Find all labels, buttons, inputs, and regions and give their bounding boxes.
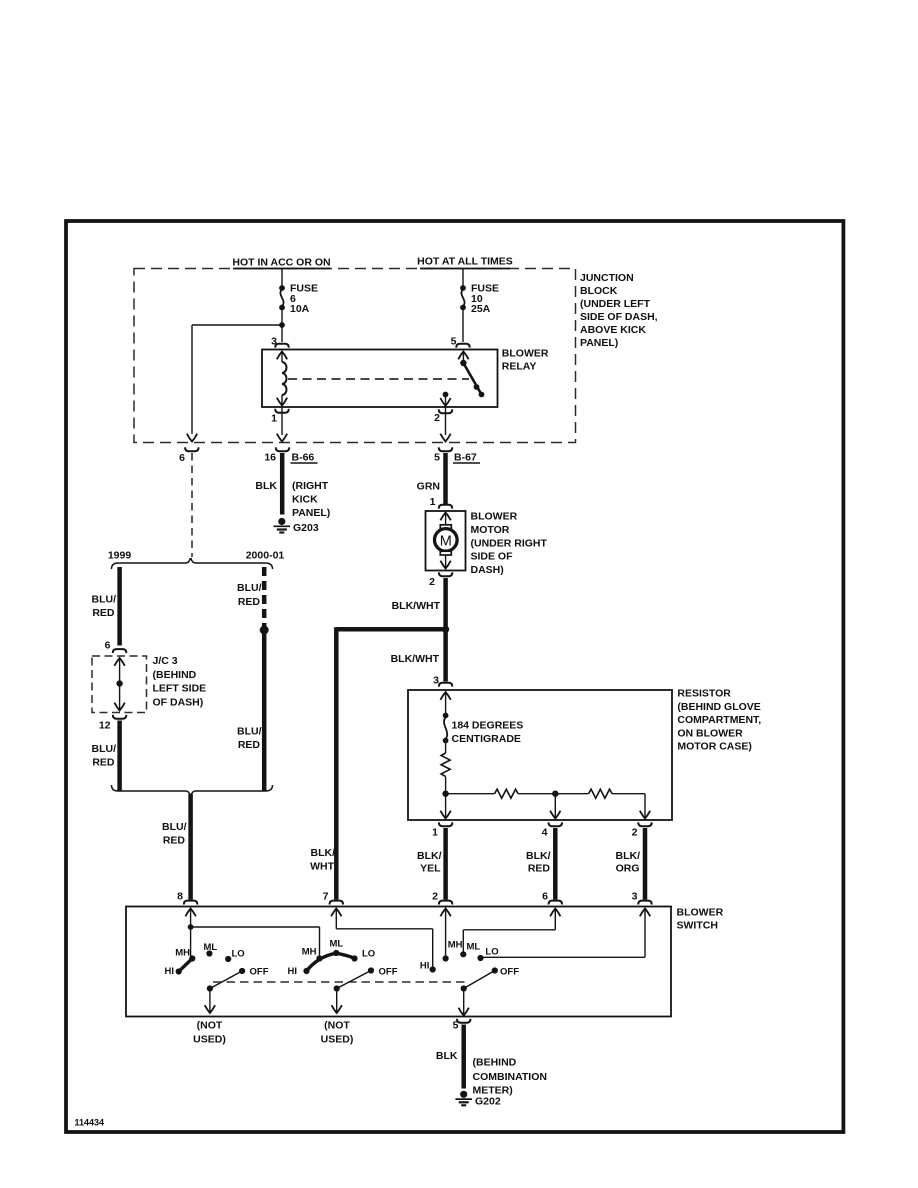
- wire BLK/YEL: [443, 828, 448, 900]
- fuse 10 value label: [471, 283, 499, 316]
- arrow switch pin 2 inside: [445, 909, 447, 959]
- svg-text:5: 5: [434, 452, 440, 464]
- connector motor pin 1: [439, 505, 452, 509]
- wire BLK/RED: [553, 828, 558, 900]
- svg-text:MH: MH: [175, 948, 190, 959]
- svg-text:6: 6: [179, 452, 185, 464]
- svg-text:ML: ML: [204, 942, 218, 953]
- net B-67 label: [453, 452, 480, 464]
- svg-text:12: 12: [99, 720, 111, 732]
- arrow switch pin 3 inside: [644, 909, 646, 958]
- svg-text:(RIGHT: (RIGHT: [292, 480, 329, 492]
- svg-text:(UNDER RIGHT: (UNDER RIGHT: [471, 537, 548, 549]
- svg-text:BLK/WHT: BLK/WHT: [391, 653, 440, 665]
- connector switch pin 7: [330, 901, 343, 905]
- wire thermal fuse to resistor R1: [445, 741, 447, 754]
- relay pin 1 lead: [281, 407, 283, 435]
- wire BLU/RED 2000-01 solid: [262, 630, 267, 791]
- svg-text:BLU/: BLU/: [92, 743, 117, 755]
- svg-text:YEL: YEL: [420, 863, 441, 875]
- svg-text:3: 3: [632, 891, 638, 903]
- junction block dashed outline: [134, 269, 576, 443]
- wire pin8 bus: [191, 926, 320, 928]
- switch bank 1 contacts: [176, 950, 246, 974]
- wire BLK to G202: [461, 1025, 466, 1089]
- wire GRN motor pin1: [443, 453, 448, 504]
- svg-text:LEFT SIDE: LEFT SIDE: [153, 683, 207, 695]
- svg-text:BLU/: BLU/: [162, 821, 187, 833]
- svg-text:BLK/: BLK/: [417, 850, 442, 862]
- junction connector J/C 3 dashed box: [92, 656, 147, 713]
- blower motor label: [471, 511, 548, 577]
- connector B-66: [276, 447, 289, 451]
- ground G202: [455, 1091, 472, 1106]
- node HOT IN ACC OR ON header: [233, 268, 330, 270]
- wire branch to junction pin 6: [192, 324, 282, 326]
- svg-text:16: 16: [264, 452, 276, 464]
- svg-text:KICK: KICK: [292, 494, 318, 506]
- connector motor pin 2: [439, 572, 452, 576]
- svg-text:RED: RED: [92, 607, 115, 619]
- connector J/C pin 6: [113, 649, 126, 653]
- connector switch pin 3: [638, 901, 651, 905]
- svg-text:MH: MH: [302, 947, 317, 958]
- arrow relay pin 1: [277, 434, 287, 442]
- svg-text:RED: RED: [238, 596, 261, 608]
- svg-text:7: 7: [323, 891, 329, 903]
- connector switch pin 8: [184, 901, 197, 905]
- svg-text:RED: RED: [528, 863, 551, 875]
- blower switch label: [677, 907, 724, 932]
- svg-text:10A: 10A: [290, 303, 310, 315]
- svg-text:MOTOR: MOTOR: [471, 524, 510, 536]
- connector relay pin 1: [275, 409, 288, 413]
- svg-text:(UNDER LEFT: (UNDER LEFT: [580, 298, 651, 310]
- svg-text:6: 6: [542, 891, 548, 903]
- switch bank 2 off wiper: [337, 971, 371, 989]
- svg-text:ML: ML: [330, 939, 344, 950]
- wire BLU/RED 1999 label: [92, 594, 117, 620]
- svg-text:HI: HI: [165, 966, 175, 977]
- resistor label: [677, 688, 761, 753]
- svg-text:ML: ML: [467, 942, 481, 953]
- svg-text:2: 2: [632, 827, 638, 839]
- switch bank 3 labels: [420, 940, 519, 978]
- switch bank 2 arm arrow: [336, 989, 338, 1014]
- wire pin6 to ML3: [464, 929, 556, 931]
- svg-text:ORG: ORG: [616, 863, 640, 875]
- svg-text:MH: MH: [448, 940, 463, 951]
- svg-text:1: 1: [271, 413, 277, 425]
- svg-text:BLK/WHT: BLK/WHT: [392, 600, 441, 612]
- ground G202 location label: [473, 1057, 547, 1097]
- splice node 2000-01: [260, 626, 269, 635]
- svg-text:BLK: BLK: [436, 1050, 458, 1062]
- wire BLU/RED 2000-01 dashed: [262, 567, 267, 628]
- junction node below fuse 6: [279, 322, 285, 328]
- svg-text:ON BLOWER: ON BLOWER: [677, 727, 743, 739]
- svg-text:BLU/: BLU/: [92, 594, 117, 606]
- svg-text:ABOVE KICK: ABOVE KICK: [580, 324, 646, 336]
- svg-text:4: 4: [542, 827, 548, 839]
- svg-text:BLK: BLK: [255, 480, 277, 492]
- svg-text:PANEL): PANEL): [580, 337, 618, 349]
- resistor pack box: [408, 690, 672, 820]
- svg-text:SWITCH: SWITCH: [677, 920, 718, 932]
- svg-text:RELAY: RELAY: [502, 360, 537, 372]
- svg-text:RED: RED: [92, 757, 115, 769]
- arrow into junction pin 6: [187, 434, 197, 442]
- svg-text:WHT: WHT: [310, 861, 334, 873]
- relay coil: [277, 352, 287, 406]
- connector J/C pin 12: [113, 715, 126, 719]
- connector junction pin 6: [185, 447, 198, 451]
- svg-text:COMPARTMENT,: COMPARTMENT,: [677, 714, 761, 726]
- wire BLU/RED 2000-01 label lower: [237, 726, 262, 752]
- J/C 3 label: [153, 655, 207, 708]
- svg-text:8: 8: [177, 891, 183, 903]
- switch bank 3 arm arrow: [463, 989, 465, 1016]
- svg-text:BLK/: BLK/: [311, 847, 336, 859]
- diagram border frame: [66, 221, 843, 1132]
- svg-text:2: 2: [429, 576, 435, 588]
- svg-text:PANEL): PANEL): [292, 507, 330, 519]
- relay pin 2 lead: [445, 407, 447, 435]
- svg-text:BLOWER: BLOWER: [502, 348, 549, 360]
- wire BLU/RED lower-left label: [92, 743, 117, 769]
- svg-text:BLU/: BLU/: [237, 726, 262, 738]
- wire pin3 to LO3: [481, 956, 646, 958]
- resistor element R2 horizontal: [495, 789, 519, 798]
- dashed wire junction pin6 to year split: [191, 453, 193, 557]
- svg-text:(NOT: (NOT: [324, 1020, 350, 1032]
- wire BLU/RED from J/C 12: [117, 721, 122, 792]
- svg-text:(NOT: (NOT: [197, 1020, 223, 1032]
- svg-text:M: M: [440, 533, 452, 549]
- switch bank 1 off wiper: [210, 971, 242, 989]
- svg-text:OFF: OFF: [250, 967, 269, 978]
- svg-text:SIDE OF: SIDE OF: [471, 551, 514, 563]
- connector B-67: [439, 447, 452, 451]
- wire BLU/RED to switch pin 8: [188, 794, 193, 900]
- wire pin8 to MH1: [190, 927, 192, 959]
- svg-text:1999: 1999: [108, 550, 132, 562]
- arrow switch pin 6 inside: [554, 909, 556, 930]
- svg-text:1: 1: [430, 496, 436, 508]
- svg-text:USED): USED): [321, 1034, 354, 1046]
- junction node BLK/WHT: [442, 626, 449, 633]
- svg-text:RESISTOR: RESISTOR: [677, 688, 731, 700]
- relay switch contact pin5: [462, 352, 464, 364]
- svg-text:(BEHIND: (BEHIND: [153, 669, 197, 681]
- blower relay label: [502, 348, 549, 373]
- switch bank 2 wiper arc HI-LO: [307, 953, 355, 971]
- relay internal dashed link: [288, 378, 469, 380]
- fuse 10 25A wire stub: [462, 269, 464, 288]
- fuse 6 10A: [279, 285, 285, 310]
- svg-text:2000-01: 2000-01: [246, 550, 285, 562]
- switch mechanical dashed link: [213, 981, 466, 983]
- svg-text:J/C 3: J/C 3: [153, 655, 178, 667]
- svg-text:6: 6: [105, 640, 111, 652]
- svg-text:OF DASH): OF DASH): [153, 696, 204, 708]
- connector resistor pin 2: [638, 822, 651, 826]
- svg-text:G202: G202: [475, 1096, 501, 1108]
- connector resistor pin 3: [439, 683, 452, 687]
- switch bank 1 wiper HI-MH: [179, 959, 193, 972]
- junction block label: [580, 272, 658, 349]
- year split brace: [112, 558, 273, 569]
- svg-text:25A: 25A: [471, 303, 491, 315]
- svg-text:(BEHIND GLOVE: (BEHIND GLOVE: [677, 701, 760, 713]
- arrow switch pin 7 inside: [335, 909, 337, 929]
- svg-text:BLU/: BLU/: [237, 582, 262, 594]
- svg-text:BLK/: BLK/: [616, 850, 641, 862]
- ground G203: [274, 518, 291, 533]
- net B-66 label: [291, 452, 318, 464]
- svg-text:OFF: OFF: [500, 967, 519, 978]
- svg-text:BLOWER: BLOWER: [471, 511, 518, 523]
- svg-text:HI: HI: [420, 961, 430, 972]
- svg-text:2: 2: [434, 412, 440, 424]
- ground G203 label: [292, 480, 330, 519]
- wire BLU/RED 1999: [117, 567, 122, 646]
- wire BLK/WHT horizontal to switch branch: [336, 627, 445, 632]
- svg-text:B-66: B-66: [292, 452, 315, 464]
- svg-text:G203: G203: [293, 522, 319, 534]
- J/C 3 internal wire: [114, 658, 124, 711]
- svg-text:OFF: OFF: [379, 967, 398, 978]
- svg-text:GRN: GRN: [417, 481, 440, 493]
- svg-text:184 DEGREES: 184 DEGREES: [452, 720, 524, 732]
- connector resistor pin 1: [439, 822, 452, 826]
- blower switch box: [126, 907, 671, 1017]
- connector switch pin 2: [439, 901, 452, 905]
- svg-text:(BEHIND: (BEHIND: [473, 1057, 517, 1069]
- junction node resistor out1: [442, 791, 448, 797]
- arrow relay pin 2: [440, 434, 450, 442]
- wire BLK/YEL label: [417, 850, 442, 875]
- fuse 6 10A wire stub: [281, 269, 283, 288]
- year merge brace: [112, 785, 273, 796]
- arrow resistor pin 4 inside: [554, 794, 556, 819]
- wire BLK/RED label: [526, 850, 551, 875]
- wire BLK to G203: [280, 453, 285, 515]
- wire BLK/WHT to resistor pin 3: [443, 629, 448, 681]
- svg-text:SIDE OF DASH,: SIDE OF DASH,: [580, 311, 658, 323]
- node HOT AT ALL TIMES header: [420, 268, 510, 270]
- wire BLK/WHT pin7 label: [310, 847, 335, 873]
- fuse 6 value label: [290, 283, 318, 316]
- connector switch pin 6: [549, 901, 562, 905]
- junction node resistor out2: [552, 791, 558, 797]
- wire node2 to R3: [555, 793, 588, 795]
- wire BLK/ORG: [643, 828, 648, 900]
- wire pin7 to HI3: [336, 928, 432, 930]
- arrow resistor pin 2 inside: [644, 810, 646, 819]
- wire fuse6 to pin3: [281, 308, 283, 343]
- relay switch blade: [463, 363, 481, 395]
- junction node pin 8: [188, 924, 194, 930]
- svg-text:BLK/: BLK/: [526, 850, 551, 862]
- label not used 1: [193, 1020, 226, 1046]
- wire R3 to pin2 drop: [612, 793, 645, 795]
- svg-text:2: 2: [432, 891, 438, 903]
- wire R2 to node2: [518, 793, 555, 795]
- switch bank 1 arm arrow: [209, 989, 211, 1014]
- wire BLK/WHT motor to node: [443, 578, 448, 629]
- wire BLU/RED 2000-01 label upper: [237, 582, 262, 608]
- svg-text:BLOWER: BLOWER: [677, 907, 724, 919]
- relay switch contact pin2: [443, 392, 449, 398]
- switch bank 2 labels: [288, 939, 398, 978]
- svg-text:B-67: B-67: [454, 452, 477, 464]
- wire BLK/WHT vertical to switch pin 7: [334, 627, 339, 899]
- wire BLU/RED switch label: [162, 821, 187, 847]
- switch bank 2 contacts: [303, 950, 374, 974]
- svg-text:MOTOR CASE): MOTOR CASE): [677, 741, 751, 753]
- svg-text:HOT AT ALL TIMES: HOT AT ALL TIMES: [417, 255, 513, 267]
- arrow switch pin 8 inside: [190, 909, 192, 928]
- svg-text:114434: 114434: [75, 1118, 105, 1128]
- svg-text:CENTIGRADE: CENTIGRADE: [452, 733, 521, 745]
- wire BLK/ORG label: [616, 850, 641, 875]
- connector resistor pin 4: [549, 822, 562, 826]
- svg-text:DASH): DASH): [471, 564, 504, 576]
- wire R1 to node: [445, 777, 447, 794]
- blower motor box: [426, 511, 466, 571]
- label not used 2: [321, 1020, 354, 1046]
- svg-text:BLOCK: BLOCK: [580, 285, 618, 297]
- connector pin 5: [456, 344, 469, 348]
- resistor element R1 vertical: [441, 753, 450, 776]
- fuse 10 25A: [460, 285, 466, 310]
- thermal fuse value label: [452, 720, 524, 746]
- motor M1 symbol: [435, 513, 458, 569]
- svg-text:HI: HI: [288, 966, 298, 977]
- connector switch pin 5: [457, 1019, 470, 1023]
- svg-text:JUNCTION: JUNCTION: [580, 272, 634, 284]
- thermal fuse 184C: [443, 713, 449, 744]
- wire node to R2: [446, 793, 495, 795]
- svg-text:LO: LO: [362, 949, 375, 960]
- svg-text:COMBINATION: COMBINATION: [473, 1071, 547, 1083]
- svg-text:1: 1: [432, 827, 438, 839]
- wire fuse10 to pin5: [462, 308, 464, 343]
- resistor element R3 horizontal: [589, 789, 613, 798]
- svg-text:LO: LO: [485, 947, 498, 958]
- arrow resistor pin 1 inside: [445, 794, 447, 819]
- svg-text:HOT IN ACC OR ON: HOT IN ACC OR ON: [232, 256, 330, 268]
- connector relay pin 2: [439, 409, 452, 413]
- arrow resistor pin 3 inside: [445, 692, 447, 714]
- connector pin 3: [275, 344, 288, 348]
- svg-text:LO: LO: [232, 949, 245, 960]
- svg-text:RED: RED: [163, 835, 186, 847]
- svg-text:USED): USED): [193, 1034, 226, 1046]
- svg-text:RED: RED: [238, 739, 261, 751]
- blower relay box: [262, 350, 498, 408]
- switch bank 1 labels: [165, 942, 269, 978]
- switch bank 3 contacts: [430, 951, 498, 973]
- switch bank 3 off wiper: [464, 971, 495, 989]
